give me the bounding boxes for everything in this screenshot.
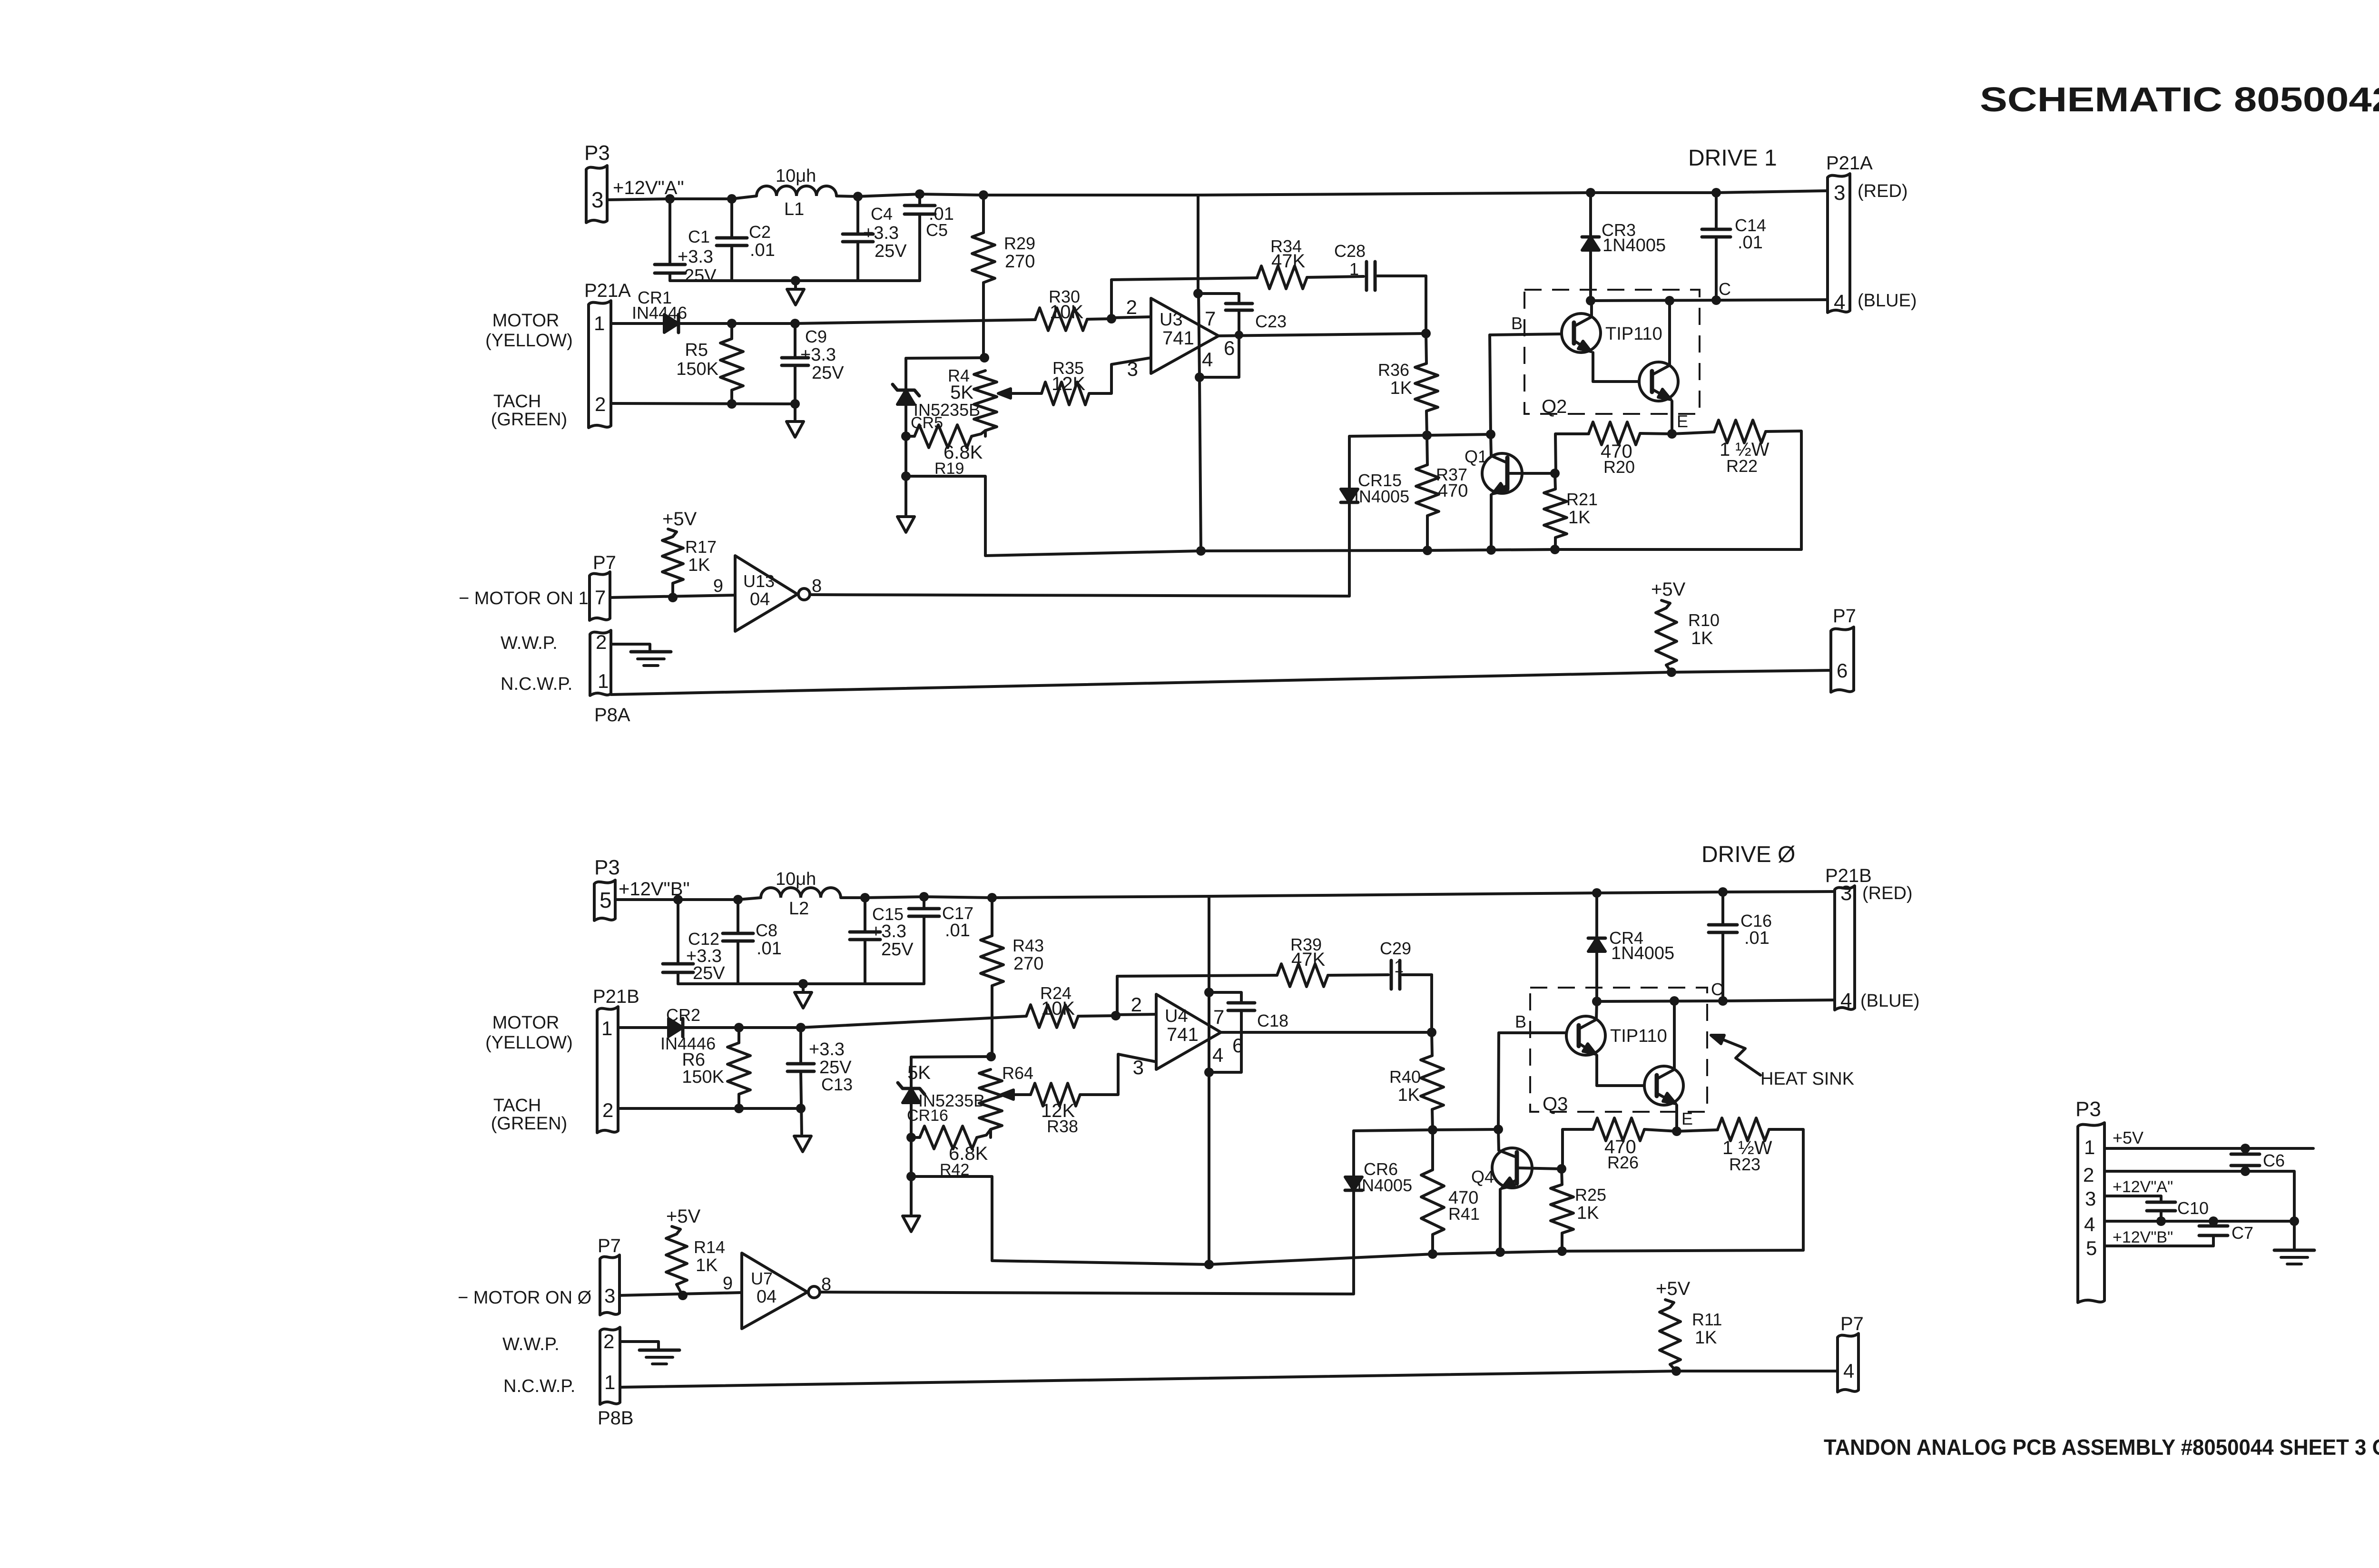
- svg-text:2: 2: [1131, 993, 1142, 1016]
- node C17 tap: [919, 892, 929, 902]
- svg-text:P7: P7: [1833, 606, 1856, 627]
- svg-text:L2: L2: [789, 899, 809, 919]
- ground zener B: [903, 1216, 920, 1232]
- svg-text:1N4005: 1N4005: [1611, 943, 1674, 963]
- svg-text:P3: P3: [2075, 1098, 2101, 1121]
- svg-text:R14: R14: [694, 1237, 725, 1257]
- node C4 tap: [853, 192, 863, 201]
- inverter U13 04: [735, 556, 797, 631]
- capacitor C28 1: [1365, 262, 1368, 290]
- svg-text:3: 3: [1840, 882, 1852, 905]
- node zener-ground-wire B: [906, 1172, 916, 1181]
- svg-text:1: 1: [604, 1371, 615, 1393]
- svg-text:R21: R21: [1566, 490, 1598, 509]
- svg-text:(BLUE): (BLUE): [1858, 291, 1917, 311]
- wire pot box top: [906, 358, 984, 358]
- svg-text:DRIVE 1: DRIVE 1: [1688, 146, 1777, 171]
- resistor R25 1K: [1562, 1169, 1562, 1185]
- diode CR6 IN4005: [1352, 1131, 1355, 1177]
- wire base node rail: [1349, 434, 1491, 436]
- capacitor C16 .01: [1718, 887, 1728, 897]
- svg-text:P21B: P21B: [593, 986, 639, 1007]
- capacitor C1 +3.3 25V: [668, 199, 671, 265]
- svg-text:C2: C2: [749, 222, 771, 242]
- transistor Q4: [1492, 1148, 1532, 1188]
- resistor R19 6.8K: [906, 435, 914, 438]
- svg-text:1: 1: [1394, 957, 1404, 976]
- svg-text:TIP110: TIP110: [1605, 324, 1662, 344]
- node zener-R42: [906, 1133, 916, 1142]
- capacitor C18: [1209, 992, 1241, 1003]
- svg-text:04: 04: [750, 589, 770, 609]
- resistor R30 10K: [1035, 308, 1087, 331]
- svg-text:+3.3: +3.3: [678, 247, 713, 267]
- wire +12V entry B: [615, 898, 761, 900]
- svg-text:.01: .01: [1744, 928, 1770, 948]
- capacitor C13 +3.3 25V: [796, 1023, 806, 1032]
- svg-text:R43: R43: [1013, 936, 1044, 955]
- svg-text:+5V: +5V: [662, 509, 697, 529]
- ground P3 detail: [2274, 1249, 2314, 1252]
- svg-text:8: 8: [821, 1274, 831, 1294]
- svg-text:Q3: Q3: [1543, 1094, 1568, 1115]
- svg-text:CR2: CR2: [666, 1005, 700, 1025]
- svg-text:1K: 1K: [1695, 1328, 1717, 1348]
- svg-text:1K: 1K: [1577, 1203, 1599, 1223]
- resistor R35 12K with wiper arrow: [1009, 392, 1042, 395]
- dashed box Q2: [1524, 290, 1700, 414]
- svg-text:MOTOR: MOTOR: [492, 311, 560, 331]
- resistor R6 150K: [734, 1023, 744, 1032]
- wire filter bottom rail: [670, 279, 920, 282]
- svg-text:4: 4: [1840, 989, 1852, 1012]
- resistor R20 470: [1555, 434, 1589, 474]
- transistor Q2b TIP110 output: [1593, 380, 1639, 383]
- diode CR15 IN4005: [1348, 436, 1351, 489]
- wire collector line to BLUE: [1591, 300, 1828, 301]
- svg-text:C16: C16: [1740, 911, 1772, 931]
- svg-text:R36: R36: [1378, 360, 1409, 380]
- svg-text:IN4005: IN4005: [1354, 487, 1409, 506]
- svg-text:C8: C8: [756, 921, 777, 940]
- svg-text:47K: 47K: [1291, 949, 1325, 970]
- svg-text:R40: R40: [1389, 1067, 1421, 1087]
- capacitor C2 .01: [730, 199, 733, 238]
- svg-text:R29: R29: [1004, 234, 1035, 253]
- svg-text:B: B: [1511, 314, 1523, 333]
- svg-text:+3.3: +3.3: [809, 1039, 845, 1059]
- svg-text:HEAT SINK: HEAT SINK: [1760, 1069, 1854, 1089]
- svg-text:B: B: [1515, 1012, 1526, 1031]
- wire feedback drop B: [1430, 975, 1433, 1032]
- ground zener: [897, 517, 914, 532]
- svg-text:12K: 12K: [1052, 373, 1085, 394]
- svg-text:N.C.W.P.: N.C.W.P.: [503, 1376, 575, 1396]
- wire op-amp output: [1219, 333, 1426, 336]
- node E: [1667, 429, 1677, 439]
- resistor R22 1 half W: [1672, 432, 1714, 434]
- wire tach line: [611, 403, 795, 404]
- svg-text:(GREEN): (GREEN): [491, 1114, 567, 1134]
- svg-text:C4: C4: [871, 204, 893, 224]
- wire +12V entry: [607, 196, 757, 200]
- wire feedback riser B: [1116, 976, 1119, 1016]
- capacitor C23: [1198, 294, 1239, 304]
- svg-text:E: E: [1677, 412, 1688, 431]
- ground filter: [794, 281, 797, 288]
- svg-text:4: 4: [1834, 291, 1845, 314]
- svg-text:1: 1: [2084, 1136, 2095, 1158]
- svg-text:(GREEN): (GREEN): [491, 410, 567, 430]
- svg-text:C9: C9: [805, 327, 827, 346]
- svg-text:+5V: +5V: [1651, 579, 1686, 600]
- svg-text:25V: 25V: [812, 363, 844, 383]
- svg-text:(BLUE): (BLUE): [1860, 991, 1920, 1011]
- diode CR2 IN4446: [618, 1026, 668, 1029]
- svg-text:− MOTOR ON 1: − MOTOR ON 1: [459, 588, 589, 608]
- svg-text:R20: R20: [1603, 457, 1635, 477]
- svg-text:P21A: P21A: [584, 280, 631, 301]
- diode CR3 1N4005: [1586, 188, 1595, 197]
- wire op-amp supply column B: [1208, 896, 1210, 992]
- diode CR1 IN4446: [611, 322, 664, 325]
- svg-text:C12: C12: [688, 929, 719, 949]
- svg-text:6: 6: [1837, 659, 1848, 682]
- svg-text:+5V: +5V: [1656, 1278, 1691, 1299]
- svg-text:1: 1: [601, 1017, 612, 1039]
- wire pot box top B: [911, 1057, 991, 1057]
- svg-text:L1: L1: [784, 199, 804, 219]
- node C1 tap: [665, 194, 675, 204]
- wire +12V B rail: [841, 892, 1835, 898]
- svg-text:3: 3: [2085, 1187, 2096, 1210]
- svg-text:3: 3: [591, 187, 604, 212]
- svg-text:Q1: Q1: [1465, 447, 1487, 466]
- svg-text:5K: 5K: [907, 1062, 931, 1083]
- svg-text:1K: 1K: [1568, 508, 1590, 528]
- capacitor C8 .01: [737, 900, 739, 933]
- wire inverting input B: [1116, 1014, 1156, 1015]
- transistor Q2a TIP110: [1562, 314, 1601, 353]
- wire feedback riser: [1110, 280, 1113, 319]
- wire op-amp output B: [1221, 1031, 1432, 1034]
- svg-text:+5V: +5V: [2113, 1128, 2143, 1147]
- wire inverter input: [610, 595, 735, 598]
- wire ground return riser B: [911, 1176, 992, 1261]
- connector P7 pin 3 left: [600, 1255, 619, 1315]
- resistor R41 470: [1431, 1130, 1434, 1170]
- inductor L1 10uh: [757, 186, 836, 196]
- node Q1 base: [1550, 469, 1560, 478]
- node C2 tap: [727, 194, 737, 204]
- svg-text:(YELLOW): (YELLOW): [485, 331, 573, 351]
- svg-text:C10: C10: [2177, 1198, 2209, 1218]
- svg-text:C23: C23: [1255, 312, 1287, 331]
- wire pin2 line: [2104, 1171, 2294, 1221]
- op-amp U4 741: [1156, 994, 1221, 1069]
- svg-text:R64: R64: [1002, 1063, 1033, 1083]
- svg-text:1K: 1K: [1398, 1085, 1420, 1105]
- resistor R36 1K: [1426, 333, 1426, 363]
- svg-text:(RED): (RED): [1858, 181, 1908, 201]
- resistor R38 12K with wiper arrow: [1012, 1093, 1031, 1096]
- connector P8A: [590, 630, 611, 696]
- wire TIP110 base drive: [1490, 334, 1562, 335]
- wire op-amp supply column: [1197, 195, 1199, 294]
- zener CR5 IN5235B: [904, 358, 907, 390]
- resistor R42 6.8K: [911, 1136, 920, 1139]
- svg-text:C18: C18: [1257, 1011, 1288, 1030]
- ground filter B: [802, 984, 805, 991]
- wire motor-on net: [810, 595, 1349, 596]
- connector P21B right: [1835, 886, 1855, 1010]
- capacitor C12 +3.3 25V: [677, 900, 679, 964]
- transistor Q3b TIP110 output: [1597, 1084, 1644, 1087]
- svg-text:E: E: [1681, 1109, 1693, 1128]
- connector P3 pin 3 (+12V A): [586, 166, 607, 223]
- wire motor-on net B: [820, 1292, 1354, 1294]
- svg-text:CR16: CR16: [907, 1107, 948, 1125]
- svg-text:270: 270: [1005, 252, 1035, 272]
- svg-text:.01: .01: [757, 939, 782, 959]
- svg-text:04: 04: [757, 1287, 777, 1307]
- node C5 tap: [915, 189, 924, 199]
- svg-text:P21A: P21A: [1826, 153, 1873, 174]
- ground tach: [786, 421, 804, 437]
- svg-text:C28: C28: [1334, 241, 1366, 261]
- resistor R43 270: [987, 893, 997, 902]
- svg-text:7: 7: [595, 586, 606, 608]
- svg-text:25V: 25V: [875, 241, 907, 261]
- svg-text:10μh: 10μh: [776, 166, 816, 186]
- svg-text:C: C: [1711, 980, 1723, 999]
- capacitor C14 .01: [1711, 188, 1721, 197]
- svg-text:R10: R10: [1688, 610, 1720, 630]
- connector P7 pin 4 right: [1838, 1333, 1858, 1392]
- svg-text:P3: P3: [594, 856, 620, 879]
- capacitor C17 .01: [923, 897, 925, 909]
- svg-text:TANDON ANALOG PCB ASSEMBLY #80: TANDON ANALOG PCB ASSEMBLY #8050044 SHEE…: [1824, 1435, 2379, 1460]
- node C8 tap: [733, 895, 743, 904]
- svg-text:3: 3: [1834, 181, 1845, 205]
- svg-text:Q2: Q2: [1542, 396, 1567, 417]
- svg-text:+12V"B": +12V"B": [2113, 1228, 2173, 1246]
- connector P8B: [600, 1327, 620, 1404]
- svg-text:.01: .01: [750, 240, 775, 260]
- svg-text:4: 4: [1212, 1044, 1223, 1066]
- svg-text:C7: C7: [2232, 1223, 2253, 1243]
- svg-text:P8B: P8B: [598, 1408, 634, 1429]
- svg-text:8: 8: [812, 576, 822, 596]
- svg-text:CR5: CR5: [911, 414, 943, 432]
- svg-text:R11: R11: [1692, 1310, 1722, 1329]
- svg-text:2: 2: [595, 393, 606, 415]
- connector P7 pin 7: [590, 572, 610, 620]
- node output B: [1427, 1028, 1436, 1037]
- svg-text:5: 5: [600, 888, 612, 912]
- potentiometer R4 5K: [974, 371, 997, 431]
- svg-text:IN4005: IN4005: [1357, 1176, 1412, 1195]
- wire inverting input: [1111, 317, 1151, 318]
- capacitor C6: [2241, 1144, 2250, 1153]
- svg-text:MOTOR: MOTOR: [492, 1013, 560, 1033]
- svg-text:W.W.P.: W.W.P.: [502, 1334, 560, 1354]
- wire +12V A line: [2104, 1196, 2161, 1202]
- svg-text:U13: U13: [743, 571, 775, 591]
- node C15 tap: [860, 893, 870, 902]
- svg-text:2: 2: [602, 1099, 613, 1121]
- svg-text:C: C: [1719, 279, 1731, 299]
- svg-text:2: 2: [2083, 1164, 2094, 1186]
- svg-text:U7: U7: [751, 1269, 773, 1288]
- svg-text:R23: R23: [1729, 1155, 1760, 1174]
- ground tach B: [794, 1136, 811, 1152]
- node Q4 base: [1557, 1164, 1566, 1174]
- wire WWP to ground: [611, 644, 650, 651]
- capacitor C5 .01: [918, 194, 921, 206]
- wire ground rail B: [992, 1250, 1803, 1264]
- svg-text:C13: C13: [821, 1075, 853, 1094]
- svg-text:+12V"A": +12V"A": [2113, 1178, 2173, 1196]
- op-amp U3 741: [1151, 298, 1219, 373]
- svg-text:R38: R38: [1047, 1117, 1078, 1136]
- svg-text:9: 9: [723, 1274, 733, 1294]
- svg-text:C5: C5: [926, 220, 948, 240]
- node zener-ground-wire: [901, 471, 911, 481]
- resistor R21 1K: [1555, 473, 1555, 489]
- svg-text:DRIVE Ø: DRIVE Ø: [1701, 842, 1795, 867]
- resistor R39 47K: [1277, 964, 1328, 987]
- node output: [1421, 329, 1431, 338]
- svg-text:1K: 1K: [696, 1255, 718, 1275]
- capacitor C4 +3.3 25V: [856, 196, 859, 234]
- svg-text:1: 1: [594, 312, 605, 334]
- svg-text:P8A: P8A: [594, 705, 630, 725]
- svg-text:1K: 1K: [1390, 378, 1412, 398]
- svg-text:5: 5: [2086, 1237, 2097, 1259]
- svg-text:C1: C1: [688, 227, 710, 246]
- svg-text:TIP110: TIP110: [1610, 1026, 1667, 1046]
- svg-text:C6: C6: [2263, 1151, 2285, 1170]
- wire feedback top B: [1117, 975, 1277, 976]
- svg-text:7: 7: [1205, 307, 1216, 330]
- svg-text:150K: 150K: [682, 1067, 724, 1087]
- svg-text:TACH: TACH: [493, 1096, 541, 1116]
- svg-text:R22: R22: [1726, 456, 1758, 476]
- svg-text:P3: P3: [584, 141, 610, 165]
- svg-text:(RED): (RED): [1862, 883, 1913, 903]
- svg-text:7: 7: [1213, 1006, 1224, 1028]
- svg-text:10K: 10K: [1041, 998, 1075, 1019]
- svg-text:9: 9: [713, 576, 723, 596]
- svg-text:P7: P7: [1840, 1313, 1864, 1334]
- wire collector node rail B: [1354, 1129, 1498, 1131]
- svg-text:1N4005: 1N4005: [1602, 235, 1666, 255]
- svg-text:2: 2: [1126, 296, 1137, 318]
- svg-text:3: 3: [1127, 358, 1138, 380]
- wire NCWP line B: [620, 1371, 1838, 1387]
- svg-text:U4: U4: [1165, 1006, 1188, 1026]
- wire feedback top: [1111, 278, 1257, 280]
- svg-text:R25: R25: [1575, 1185, 1606, 1205]
- wire ground return riser: [906, 476, 985, 556]
- svg-text:3: 3: [604, 1284, 615, 1307]
- svg-text:(YELLOW): (YELLOW): [485, 1033, 573, 1053]
- svg-text:470: 470: [1438, 481, 1468, 501]
- resistor R5 150K: [727, 319, 737, 328]
- wire ground rail: [985, 549, 1801, 556]
- svg-text:5K: 5K: [950, 382, 973, 403]
- node E B: [1672, 1127, 1681, 1136]
- wire feedback drop: [1425, 276, 1427, 333]
- svg-text:25V: 25V: [693, 963, 725, 983]
- svg-text:1K: 1K: [1691, 628, 1713, 648]
- svg-text:+5V: +5V: [666, 1206, 701, 1227]
- diode CR4 1N4005: [1592, 888, 1602, 898]
- svg-text:R26: R26: [1607, 1153, 1639, 1172]
- node pot box top B: [986, 1052, 996, 1061]
- svg-text:6: 6: [1224, 337, 1235, 359]
- wire tach line B: [618, 1107, 801, 1110]
- svg-text:47K: 47K: [1271, 251, 1305, 272]
- connector P21A right: [1828, 174, 1850, 313]
- wire WWP to ground B: [620, 1342, 659, 1349]
- wire pin4 line: [2104, 1221, 2294, 1249]
- connector P7 pin 6 right: [1831, 627, 1854, 692]
- svg-text:C14: C14: [1735, 216, 1766, 235]
- svg-text:P7: P7: [593, 552, 616, 573]
- svg-text:R17: R17: [685, 537, 717, 557]
- inverter U7 04: [742, 1253, 807, 1329]
- svg-text:4: 4: [2084, 1213, 2095, 1235]
- svg-text:741: 741: [1167, 1024, 1199, 1045]
- transistor Q3a TIP110: [1566, 1016, 1605, 1055]
- wire inverter input B: [619, 1293, 742, 1295]
- svg-text:N.C.W.P.: N.C.W.P.: [501, 674, 572, 694]
- capacitor C7: [2212, 1221, 2215, 1226]
- resistor R29 270: [979, 190, 988, 200]
- annotation HEAT SINK with arrow: [1717, 1037, 1760, 1075]
- resistor R34 47K: [1257, 266, 1307, 289]
- wire TIP110 base drive B: [1499, 1031, 1566, 1034]
- node C12 tap: [673, 895, 683, 904]
- svg-text:10K: 10K: [1050, 302, 1083, 323]
- transistor Q1: [1482, 453, 1522, 493]
- node zener-R19: [901, 431, 911, 441]
- svg-text:Q4: Q4: [1471, 1167, 1494, 1186]
- svg-text:W.W.P.: W.W.P.: [501, 633, 558, 653]
- resistor R37 470: [1427, 435, 1427, 465]
- svg-text:R5: R5: [685, 340, 708, 360]
- wire collector line to BLUE B: [1597, 1000, 1835, 1001]
- svg-text:25V: 25V: [684, 266, 717, 286]
- capacitor C10: [2147, 1201, 2175, 1204]
- svg-text:+3.3: +3.3: [800, 345, 836, 365]
- capacitor C15 +3.3 25V: [864, 898, 866, 932]
- svg-text:.01: .01: [945, 921, 970, 941]
- svg-text:4: 4: [1202, 348, 1213, 371]
- zener CR16 IN5235B: [910, 1057, 913, 1088]
- svg-text:− MOTOR ON Ø: − MOTOR ON Ø: [458, 1288, 591, 1308]
- connector P21A left: [589, 301, 611, 428]
- svg-text:C29: C29: [1380, 939, 1411, 958]
- svg-text:2: 2: [603, 1330, 614, 1352]
- svg-text:270: 270: [1013, 954, 1043, 974]
- capacitor C9 +3.3 25V: [790, 319, 800, 328]
- svg-text:R41: R41: [1448, 1204, 1480, 1224]
- capacitor C29 1: [1390, 960, 1393, 989]
- svg-text:IN4446: IN4446: [632, 303, 687, 323]
